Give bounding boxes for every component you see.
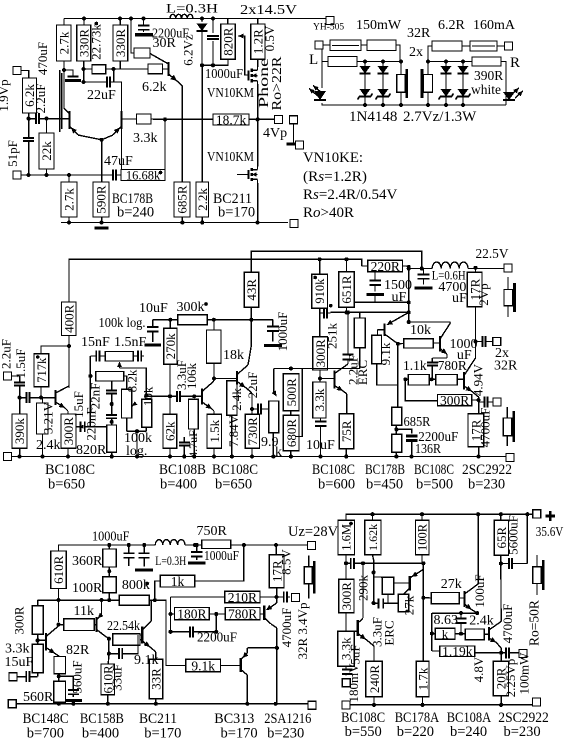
svg-text:9.1k: 9.1k [191, 658, 215, 673]
capacitor fb br [346, 558, 363, 569]
svg-text:2.4k: 2.4k [229, 388, 244, 411]
junction br rail x478.1 [476, 512, 480, 516]
terminal mid left [13, 171, 21, 179]
wire box1-box2 [361, 44, 367, 46]
wire 17R1 top [475, 268, 477, 272]
resistor 1k bl [160, 574, 195, 589]
junction mid rail x320.5 [319, 455, 323, 459]
junction bc158 coll [107, 637, 111, 641]
wire zener down [201, 32, 203, 65]
junction mid rail x231.9 [230, 455, 234, 459]
trimmer 9.9k box [269, 401, 279, 433]
svg-text:1.5uF: 1.5uF [13, 349, 28, 379]
junction mid rail x252 [250, 455, 254, 459]
svg-text:2.7Vz/1.3W: 2.7Vz/1.3W [403, 109, 477, 125]
capacitor 1.5nF [133, 351, 144, 362]
svg-text:10uF: 10uF [306, 438, 335, 453]
wire 1.7k bottom [422, 697, 424, 705]
junction mid rail x396.4 [394, 455, 398, 459]
junction ground rail x101.6 [100, 221, 104, 225]
junction diode col4 top [461, 60, 465, 64]
svg-text:180R: 180R [177, 606, 206, 621]
transistor mid Q3 npn bc108c600 [320, 364, 348, 414]
capacitor 2200uF top [135, 19, 153, 35]
svg-text:360R: 360R [72, 554, 103, 569]
resistor 75R [339, 414, 354, 449]
transistor mid Q1 npn [56, 386, 70, 414]
wire node to 51pF [28, 119, 30, 137]
resistor 300k box [178, 315, 208, 325]
junction bl rail gnd x73.4 [71, 702, 75, 706]
wire diode col2 [382, 62, 384, 67]
junction 22k mid [45, 173, 49, 177]
wire fb row [363, 562, 423, 564]
svg-text:8.2k: 8.2k [125, 369, 140, 392]
wire 431 down [431, 613, 433, 651]
diode 1N4148 col3 [441, 66, 452, 74]
junction right vert mid [407, 300, 411, 304]
capacitor 2200uF bl [187, 626, 197, 637]
junction 180R-780R [214, 612, 218, 616]
resistor 1.62k [365, 520, 381, 554]
wire diode bot col2 [382, 97, 384, 105]
svg-text:680R: 680R [284, 419, 299, 448]
wire 300R br top [345, 563, 347, 579]
junction mid rail x19.6 [18, 455, 22, 459]
resistor 800k box [119, 595, 149, 605]
speaker 32R mid [503, 407, 514, 446]
junction fb node [361, 561, 365, 565]
junction tone bottom [135, 429, 139, 433]
wire 560R bottom [58, 702, 60, 703]
capacitor 5600uF [501, 558, 528, 569]
arrow 8.2k wiper [132, 403, 136, 406]
resistor 560R box [54, 681, 66, 702]
resistor 651R [339, 272, 354, 308]
junction pot left mid [88, 374, 92, 378]
junction mid rail x184.3 [182, 455, 186, 459]
junction ground rail x202.3 [200, 221, 204, 225]
terminal br supply [533, 510, 541, 518]
wire 17R2 bottom [478, 447, 480, 456]
svg-text:Ro=50R: Ro=50R [527, 600, 542, 646]
svg-text:33R: 33R [149, 668, 164, 690]
wire emitter node stub [479, 400, 481, 402]
svg-text:2.2k: 2.2k [195, 188, 210, 211]
wire 2.7k node down to base [64, 70, 68, 112]
wire 1500uF bottom row [354, 301, 409, 303]
capacitor 1000uF bl b pol [135, 545, 153, 570]
svg-text:100R: 100R [72, 581, 103, 596]
wire bc158 coll down [108, 639, 110, 654]
wire 17R3 bottom [276, 588, 278, 597]
transistor mid Q4 pnp bc178b [378, 312, 409, 343]
junction base row right [112, 67, 116, 71]
junction 17R top [474, 266, 478, 270]
wire 2254 right to base [140, 639, 142, 641]
svg-text:2.4k: 2.4k [36, 438, 61, 453]
capacitor out coupling upper [479, 336, 493, 347]
svg-text:180mV: 180mV [346, 663, 361, 703]
wire rail to zener [201, 19, 203, 23]
svg-text:b=550: b=550 [345, 724, 382, 740]
wire diode col1 [364, 62, 366, 67]
svg-text:220nF: 220nF [84, 407, 99, 440]
wire 300k row right [207, 319, 273, 321]
resistor 9.1k mid [372, 335, 382, 364]
wire br rail [346, 514, 533, 520]
svg-text:4.7uF: 4.7uF [186, 430, 200, 458]
resistor 11k box [64, 619, 94, 631]
wire 100R down [421, 555, 423, 564]
speaker 32R right [422, 62, 433, 106]
wire right vert [408, 267, 410, 322]
terminal 4Vp output [275, 115, 283, 123]
transistor M1 VN10KM upper [249, 67, 258, 85]
resistor 62k [163, 414, 178, 448]
resistor 1.2R [250, 24, 265, 59]
wire base row to 6.2k [114, 68, 148, 70]
junction br out node [499, 651, 503, 655]
wire 610Rb top stub [107, 654, 110, 664]
svg-text:3.21V: 3.21V [41, 401, 56, 434]
junction mid rail x68 [66, 455, 70, 459]
transistor bl Q2 pnp bc158b [97, 600, 109, 639]
wire 180R-780R [209, 613, 225, 615]
resistor fuse inner line [332, 44, 359, 46]
junction diode col1 bottom [363, 103, 367, 107]
wire tone to rail [136, 431, 138, 456]
junction output node [256, 117, 260, 121]
svg-text:(Rs=1.2R): (Rs=1.2R) [303, 169, 367, 185]
wire 300R2 bottom [319, 370, 321, 382]
wire 2.4k bottom [42, 434, 44, 457]
junction br rail gnd x374 [372, 703, 376, 707]
svg-text:VN10KM: VN10KM [207, 149, 254, 164]
wire 11k left [59, 624, 64, 626]
resistor 2.7k lower [61, 182, 77, 217]
resistor 18k box [207, 330, 222, 363]
capacitor out coupling lower [481, 397, 492, 408]
resistor 6.2R box [432, 41, 462, 51]
wire coll vert q3mid [347, 312, 349, 354]
wire 3.3k to 18.7k row [151, 118, 165, 120]
svg-text:400R: 400R [61, 304, 76, 333]
svg-text:1.6M: 1.6M [340, 524, 354, 551]
transistor bl Q1 npn bc148c [38, 626, 60, 657]
junction mid rail x214 [212, 455, 216, 459]
junction bl rail x128.8 [127, 543, 131, 547]
wire base row q2 [146, 395, 173, 397]
svg-text:22.54k: 22.54k [107, 619, 140, 634]
junction diode col2 top [381, 60, 385, 64]
transistor bl Q5 pnp 2sa1216 [260, 597, 277, 628]
wire Q3 emitter down [177, 81, 182, 182]
wire 100R bottom [108, 593, 110, 600]
wire 16.68k to 18.7k node [164, 119, 166, 175]
wire r row to term [497, 45, 504, 47]
transistor M2 VN10KM lower [237, 166, 258, 183]
svg-text:150mW: 150mW [356, 18, 402, 33]
diode LED right indicator [503, 88, 523, 100]
capacitor 1000uF A [207, 36, 219, 39]
resistor 33R [149, 659, 164, 699]
resistor 251k box [354, 318, 365, 348]
junction ground rail x182.4 [180, 221, 184, 225]
junction 1.1k left [403, 377, 407, 381]
junction 170 b [169, 630, 173, 634]
svg-text:560uF: 560uF [70, 660, 85, 693]
junction 290k tap [372, 570, 376, 574]
junction bl rail x194.9 [193, 543, 197, 547]
wire 1.1k left [405, 378, 408, 380]
svg-text:L: L [309, 52, 318, 68]
capacitor 2.2uF mid [14, 376, 25, 398]
resistor k box [435, 626, 455, 641]
svg-text:ERC: ERC [355, 360, 370, 385]
wire M1 source down [257, 84, 259, 119]
terminal phone ring [296, 141, 304, 149]
svg-text:b=230: b=230 [267, 726, 304, 741]
wire L row2 b [357, 61, 401, 63]
resistor 270k [163, 328, 178, 364]
svg-text:2x14.5V: 2x14.5V [240, 3, 297, 18]
svg-text:100k log.: 100k log. [99, 316, 146, 331]
svg-text:685R: 685R [404, 415, 432, 430]
wire k right [455, 633, 465, 635]
junction 220nF bottom [110, 420, 114, 424]
wire L row2 a [322, 61, 328, 63]
resistor 300R mid2 [313, 337, 328, 370]
svg-text:1000uF: 1000uF [204, 549, 239, 564]
svg-text:b=400: b=400 [160, 477, 197, 493]
wire 27k2 right [459, 597, 464, 599]
wire 330R-2 bottom [119, 61, 121, 69]
svg-text:15uF: 15uF [5, 655, 34, 670]
wire follower base row [214, 378, 237, 380]
svg-text:717k: 717k [35, 357, 49, 383]
junction y600 a [57, 598, 61, 602]
wire collector node down [397, 344, 399, 408]
capacitor 1000uF bl a [123, 545, 134, 566]
resistor 210R [225, 590, 260, 605]
junction on top rail x84 [82, 17, 86, 21]
svg-text:6.2k: 6.2k [142, 80, 167, 95]
resistor 6.2k driver box [148, 64, 163, 74]
wire diode col4 [462, 62, 464, 67]
wire gate row [202, 59, 228, 65]
wire bc178a emitter up [422, 563, 425, 569]
wire 1.19k right [475, 652, 501, 654]
transistor Q1 pnp left [56, 108, 102, 140]
resistor 400R [61, 302, 76, 336]
svg-text:22.73k: 22.73k [89, 24, 104, 60]
junction 27k tap [421, 596, 425, 600]
wire 368 bend down [295, 369, 302, 437]
terminal 22.5V [504, 264, 512, 272]
resistor 18.7k [213, 112, 249, 127]
junction emitter node out [477, 398, 481, 402]
resistor 17R mid1 [467, 272, 482, 307]
svg-text:100mW: 100mW [517, 652, 532, 695]
transistor mid Q2 npn [194, 381, 214, 414]
svg-text:b=230: b=230 [468, 477, 505, 493]
junction bl rail x144.2 [142, 543, 146, 547]
svg-text:730R: 730R [245, 417, 260, 446]
svg-text:1.5k: 1.5k [207, 419, 222, 442]
resistor 300R bl [32, 606, 43, 635]
wire fb node [331, 311, 409, 313]
wire rail to 330R-1 [83, 19, 85, 26]
wire 51pF to rail [28, 142, 30, 175]
svg-text:2200uF: 2200uF [197, 631, 237, 646]
junction k right [459, 632, 463, 636]
wire 360R-100R [108, 567, 110, 577]
wire 2.4k mid2 bottom [231, 415, 233, 456]
wire Q1c vertical [68, 346, 70, 388]
capacitor 5uF input br [342, 666, 353, 675]
svg-text:22k: 22k [39, 141, 54, 161]
wire 680R bottom [290, 451, 292, 457]
wire 1000uF down [212, 41, 214, 65]
junction q2 base node [192, 394, 196, 398]
wire 2.2k top [201, 65, 203, 182]
wire 1.1k-780R mid [429, 378, 436, 380]
transistor Q2 pnp right [102, 111, 137, 140]
wire 3.3uF right [388, 602, 398, 604]
svg-text:4Vp: 4Vp [263, 126, 287, 141]
svg-text:75R: 75R [339, 420, 354, 442]
junction on top rail x131 [129, 17, 133, 21]
junction 18.7k row left [163, 117, 167, 121]
resistor 3.3k mid [312, 382, 327, 418]
wire 1k left [155, 581, 160, 600]
diode zener 2.7Vz col4 [456, 89, 471, 100]
junction diode col3 bottom [444, 103, 448, 107]
junction 500R top [289, 367, 293, 371]
wire 2.4k right [484, 633, 489, 635]
transistor br Q2 pnp bc178a [394, 570, 423, 595]
svg-text:7.84V: 7.84V [226, 414, 241, 447]
resistor 330R first [76, 25, 91, 61]
junction br rail x500.9 [499, 512, 503, 516]
wire y600 [38, 599, 120, 601]
wire diode bot col1 [364, 97, 366, 105]
wire 730R bottom [251, 448, 253, 456]
wire 2sa coll down [276, 628, 278, 704]
wire ground rail [61, 222, 288, 224]
wire rail to 1.2R [257, 19, 259, 25]
svg-text:27k: 27k [441, 577, 462, 592]
resistor 680R [283, 415, 299, 451]
wire bl rail2 [185, 544, 202, 546]
junction bl rail x109.3 [107, 543, 111, 547]
transistor br Q4 npn 2sc2922 [484, 564, 501, 653]
resistor 240R [366, 661, 383, 697]
svg-text:22uF: 22uF [87, 88, 116, 103]
wire 75R bottom [345, 449, 347, 457]
resistor 500R [283, 374, 299, 411]
wire right base feed [114, 82, 122, 112]
junction mid rail x137 [135, 455, 139, 459]
wire mid ground rail [5, 456, 506, 458]
resistor 300R out [438, 393, 472, 408]
svg-text:610R: 610R [51, 555, 66, 584]
resistor 820R [221, 24, 236, 59]
wire mid rail1 [69, 259, 362, 302]
resistor 106k box [189, 399, 199, 429]
wire M2 source down [257, 183, 259, 223]
plus sign [545, 515, 555, 518]
junction br rail x372.5 [371, 512, 375, 516]
wire 65R bottom [500, 555, 502, 563]
transistor mid Q2b npn follower [237, 320, 252, 415]
svg-text:2.7k: 2.7k [62, 188, 77, 211]
wire 136R bottom [395, 452, 397, 456]
svg-text:9.1k: 9.1k [378, 342, 393, 365]
junction mid rail x194.2 [192, 455, 196, 459]
svg-text:470uF: 470uF [35, 42, 50, 75]
wire 180R left [171, 613, 175, 615]
wire 780R right [260, 613, 262, 615]
resistor 2.2k [195, 182, 210, 217]
junction bl rail gnd x155.9 [154, 702, 158, 706]
capacitor 47uF [110, 170, 121, 181]
wire 270k to base row [169, 364, 171, 396]
wire 2.4k top [42, 398, 44, 403]
svg-text:330R: 330R [113, 29, 128, 58]
capacitor 4700uF bl out [277, 592, 290, 603]
wire br ground rail [346, 704, 537, 706]
capacitor 22nF [106, 381, 117, 404]
wire 300R br bottom [345, 613, 347, 631]
svg-text:240R: 240R [367, 665, 382, 694]
resistor 43R [244, 272, 259, 307]
wire rail to 2.7k [63, 19, 65, 26]
wire 610R a bottom [58, 589, 60, 623]
svg-text:2.7k: 2.7k [56, 31, 71, 54]
wire input to 6.2k [21, 71, 29, 79]
wire 18.7k to out node [249, 118, 258, 120]
svg-text:43R: 43R [244, 279, 259, 301]
svg-text:1.19k: 1.19k [442, 644, 473, 659]
junction mid rail x290.9 [289, 455, 293, 459]
resistor 9.1k bl box [186, 658, 221, 673]
wire bl rail3 [231, 544, 309, 546]
resistor 22k [39, 133, 54, 169]
terminal input left [13, 67, 21, 75]
wire M2 drain up [257, 119, 259, 166]
wire pot left down [89, 356, 91, 427]
svg-text:white: white [471, 82, 501, 97]
wire 300R right [472, 399, 479, 401]
junction bl rail x196.8 [195, 543, 199, 547]
wire 9.1k bl left [155, 600, 186, 665]
wire rail to 30R [131, 19, 134, 54]
wire 27k2 left [423, 597, 431, 599]
speaker 32R left [397, 62, 407, 106]
wire emitters to 590R [101, 140, 103, 182]
svg-text:b=650: b=650 [215, 477, 252, 493]
wire 15uF to 820R [90, 426, 106, 428]
resistor 1.7k [415, 661, 430, 697]
junction y600 c [100, 598, 104, 602]
junction speaker L top [399, 60, 403, 64]
capacitor 3.3uF ERC br [374, 599, 388, 609]
wire 251k bottom [359, 348, 361, 369]
junction br rail x527.4 [525, 512, 529, 516]
resistor 3.3k box [137, 114, 152, 124]
